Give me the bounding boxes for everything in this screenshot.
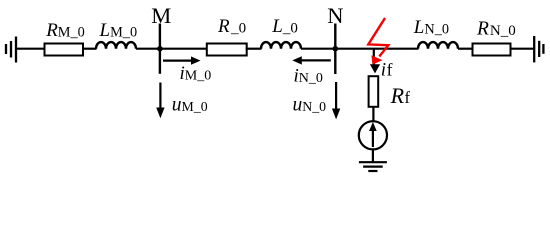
- wire: node M to R_0: [160, 48, 207, 50]
- junction dot at M: [157, 46, 163, 52]
- voltage arrow uN_0: [332, 82, 340, 119]
- wire: current source to ground: [372, 149, 374, 162]
- current arrow iN_0: [292, 56, 331, 64]
- ground (fault branch): [359, 162, 387, 171]
- current source: [359, 121, 387, 149]
- voltage arrow uM_0: [156, 83, 164, 119]
- svg-text:M: M: [151, 3, 171, 28]
- current arrow if (fault branch): [370, 49, 380, 74]
- wire: R_0 to L_0: [246, 48, 262, 50]
- ground (left): [6, 37, 16, 63]
- resistor RM_0: [45, 44, 84, 56]
- wire: LM_0 to node M: [136, 48, 160, 50]
- resistor Rf: [369, 76, 379, 107]
- resistor R_0: [207, 44, 247, 56]
- current arrow iM_0: [163, 56, 201, 64]
- inductor LM_0: [96, 42, 136, 49]
- wire: node N to LN_0 (through fault tap): [335, 48, 418, 50]
- node N bus bar: [334, 24, 336, 75]
- wire: Rf to current source: [372, 107, 374, 122]
- wire: LN_0 to RN_0: [458, 48, 473, 50]
- inductor L_0: [261, 42, 301, 49]
- svg-text:N: N: [327, 3, 343, 28]
- fault lightning bolt: [368, 18, 388, 65]
- wire: RM_0 to LM_0: [83, 48, 97, 50]
- inductor LN_0: [418, 42, 458, 49]
- node M bus bar: [159, 24, 161, 74]
- wire: L_0 to node N: [301, 48, 335, 50]
- ground (right): [534, 36, 543, 62]
- junction dot at N: [333, 46, 339, 52]
- svg-text:if: if: [381, 59, 393, 80]
- wire: left ground to RM_0: [16, 48, 45, 50]
- wire: RN_0 to right ground: [510, 48, 535, 50]
- resistor RN_0: [473, 44, 511, 56]
